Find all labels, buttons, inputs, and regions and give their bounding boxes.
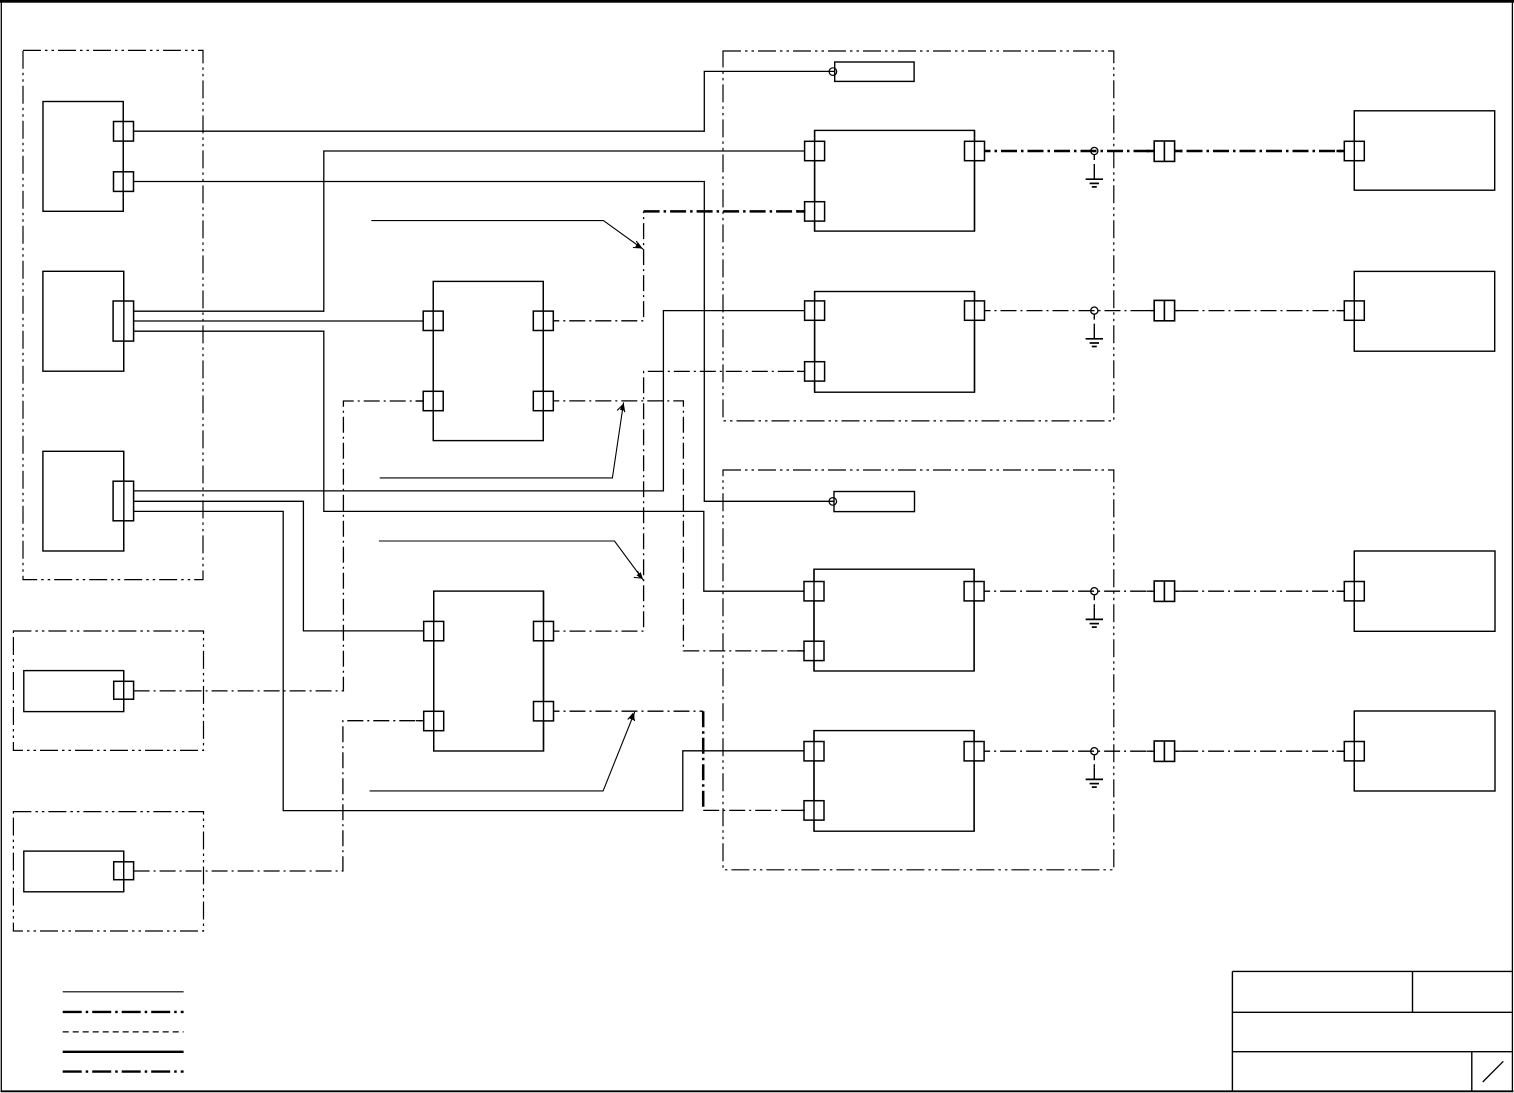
connector D2 left-top [805, 301, 825, 320]
component B2 (sensor, left lower) [24, 851, 124, 892]
component D3 (unit in E-R2, upper) [814, 569, 974, 671]
node N3 (row3 ground tap) [1091, 588, 1098, 595]
inline connector J1 (row1) [1154, 141, 1174, 161]
component A3 (left unit 3) [43, 451, 124, 551]
connector C1 left-bottom [423, 391, 443, 410]
wire stub at J1 right [1174, 150, 1183, 153]
connector D4 right [964, 742, 984, 761]
connector A2 [113, 301, 134, 341]
component F1 (right unit row1) [1354, 111, 1494, 190]
connector D1 left-bottom [805, 202, 825, 221]
connector B1 [114, 681, 134, 699]
wire row4 D4 right to F4 [974, 750, 1354, 752]
wire row1 D1 right to F1 (thick dash-dot) [975, 150, 1355, 153]
component F2 (right unit row2) [1354, 271, 1494, 351]
connector C1 right-bottom [533, 391, 553, 410]
dashed enclosure E-R1 (top-right unit boundary) [723, 51, 1114, 421]
wire B1 to C1 left-bottom (dash-dot) [134, 401, 434, 691]
wire stub at C1 left-bottom [416, 400, 425, 402]
connector C2 left-bottom [424, 711, 444, 730]
connector A3 [113, 481, 134, 521]
connector C2 left-top [424, 621, 444, 640]
connector F3 [1344, 582, 1364, 601]
connector D1 left-top [805, 141, 825, 160]
connector F1 [1344, 141, 1364, 160]
wire A3 pin3 to D4 upper-left (row4 feed) [134, 511, 814, 810]
legend line solid thin [63, 991, 184, 993]
connector A1-1 [114, 122, 134, 142]
redraw C1 edges through connectors [433, 281, 543, 440]
wire row3 D3 right to F3 [974, 590, 1354, 592]
wire stub at F2 connector [1337, 310, 1346, 312]
component E2 (diode block bottom) [834, 492, 915, 512]
connector D2 right [965, 301, 985, 320]
wire stub at J2 left [1147, 310, 1156, 312]
callout leader D [370, 712, 635, 791]
title block diagonal slash [1483, 1061, 1504, 1082]
legend line dash-dot thick [63, 1011, 184, 1013]
wire C1 right-bottom to D3 left-bottom [543, 401, 814, 651]
node N4 (row4 ground tap) [1091, 748, 1098, 755]
inline connector J4 (row4) [1154, 741, 1174, 761]
wire A2 pin3 to D3 upper-left (row3 feed) [134, 331, 814, 591]
connector D1 right [965, 141, 985, 160]
wire A2 pin2 to C1 left-top [134, 320, 434, 322]
wire C2 right-bottom horizontal [544, 710, 704, 712]
component C1 (relay unit 1, center) [433, 281, 543, 440]
wire C2 right-top to D2 left-bottom [544, 371, 815, 631]
legend line dashed thin [63, 1031, 184, 1033]
component B1 (sensor, left middle) [24, 671, 124, 712]
connector D4 left-bottom [804, 801, 824, 820]
wire stub at J2 right [1174, 310, 1183, 312]
component D2 (unit in E-R1, lower) [815, 292, 975, 393]
wire stub at J4 left [1147, 750, 1156, 752]
connector D3 left-bottom [804, 641, 824, 660]
component C2 (relay unit 2, center) [434, 591, 544, 751]
terminal circle E1 [829, 68, 837, 76]
inline connector J3 (row3) [1154, 581, 1174, 601]
legend line dash-dot thick 2 [63, 1070, 184, 1072]
terminal circle E2 [829, 498, 837, 506]
callout leader A [371, 221, 643, 250]
wire A3 pin1 to D2 upper-left (row2 feed) [134, 311, 815, 491]
component A2 (left unit 2) [43, 271, 124, 371]
wire thick drop to D4 left-bottom [703, 809, 814, 811]
component F3 (right unit row3) [1354, 551, 1495, 631]
connector D3 right [964, 582, 984, 601]
wire stub at J3 right [1174, 590, 1183, 592]
wire stub at J3 left [1147, 590, 1156, 592]
wire pin2 A1 to E2 [134, 182, 835, 502]
component A1 (top-left unit) [43, 102, 123, 212]
dashed enclosure E-B1 (left middle boundary) [13, 631, 203, 750]
ground G1 [1086, 155, 1103, 187]
wire stub at J1 left [1147, 150, 1156, 153]
ground G3 [1086, 595, 1103, 627]
connector D3 left-top [804, 582, 824, 601]
component D1 (unit in E-R1, upper) [815, 130, 975, 231]
connector D4 left-top [804, 742, 824, 761]
wire stub at D1 left-bottom thick [797, 210, 805, 213]
ground G2 [1086, 315, 1103, 347]
wire A3 pin2 to C2 left-top [134, 501, 434, 631]
wire stub at D4 left-bottom [797, 809, 805, 811]
connector F2 [1344, 301, 1364, 320]
dashed enclosure E-R2 (bottom-right unit boundary) [723, 470, 1114, 870]
title block divider row1 [1412, 971, 1414, 1012]
node N1 (row1 ground tap) [1091, 147, 1098, 154]
wire row2 D2 right to F2 [975, 310, 1355, 312]
connector C1 left-top [423, 311, 443, 330]
wire B2 to C2 left-bottom (dash-dot) [134, 721, 434, 871]
dashed enclosure E-B2 (left lower boundary) [13, 812, 203, 931]
connector C1 right-top [533, 311, 553, 330]
inline connector J2 (row2) [1154, 300, 1174, 320]
connector C2 right-bottom [534, 702, 554, 721]
wire stub at D3 left-bottom [797, 650, 805, 652]
component E1 (diode block top) [835, 62, 914, 81]
title block frame [1232, 971, 1512, 1091]
component D4 (unit in E-R2, lower) [814, 731, 974, 832]
redraw A1 edge through connectors [122, 102, 124, 212]
connector A1-2 [114, 172, 134, 192]
wire stub at F1 connector [1337, 150, 1346, 153]
connector B2 [114, 862, 134, 880]
wire C1 right-top to D1 left-bottom [543, 211, 643, 320]
wire stub at J4 right [1174, 750, 1183, 752]
legend line solid thick [63, 1051, 184, 1053]
wire pin1 A1 to E1 [134, 71, 836, 131]
wire stub at D2 left-bottom [797, 370, 805, 372]
wire stub at F4 connector [1337, 750, 1346, 752]
callout leader B [380, 402, 625, 478]
connector C2 right-top [534, 621, 554, 640]
node N2 (row2 ground tap) [1091, 307, 1098, 314]
page top bar [0, 0, 1514, 3]
wire stub at F3 connector [1337, 590, 1346, 592]
wire stub at C2 left-bottom [416, 720, 425, 722]
component F4 (right unit row4) [1354, 711, 1495, 791]
dashed enclosure E-A (top-left harness boundary) [23, 50, 203, 579]
ground G4 [1086, 755, 1103, 787]
callout leader C [379, 541, 643, 580]
connector F4 [1344, 742, 1364, 761]
wire A2 pin1 to D1 upper-left (row1 feed) [134, 151, 815, 311]
wire C2 right-bottom thick vertical drop [702, 711, 705, 810]
title block small cell [1471, 1052, 1473, 1092]
connector D2 left-bottom [805, 362, 825, 381]
wire C1 right-top to D1 left-bottom thick run [644, 210, 815, 213]
